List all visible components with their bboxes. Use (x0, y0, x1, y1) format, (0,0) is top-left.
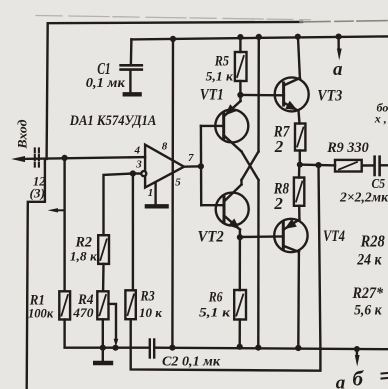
wire R1 bottom to rail (65, 320, 150, 348)
wire VT3 emitter to R7 (299, 111, 300, 124)
resistor R3 (125, 290, 135, 319)
junction output/base node (198, 163, 204, 169)
junction output column (315, 162, 321, 168)
wire output node right (300, 163, 335, 166)
wire op-amp output pin 7 (184, 165, 201, 168)
R4 tap wire (109, 304, 117, 341)
wire R4 bottom (102, 319, 104, 347)
transistor VT1 (201, 125, 224, 127)
terminal b bottom (354, 346, 360, 352)
wire C5 to edge (381, 164, 388, 166)
edge mark right bottom (382, 372, 388, 375)
junction input node (62, 155, 68, 161)
resistor R9 (335, 160, 362, 172)
connector break marks (35, 148, 39, 168)
resistor R8 (294, 178, 304, 206)
resistor R6 (234, 290, 246, 320)
junction C2 node (169, 345, 175, 351)
wire R8 bottom to VT4 (298, 206, 301, 220)
transistor VT4 (274, 219, 307, 252)
wire output bus bottom (155, 348, 388, 350)
resistor R1 (59, 291, 70, 319)
wire R1 column (63, 158, 65, 291)
wire cross column upper (257, 37, 260, 152)
wire VT4 base (240, 235, 284, 238)
wire crossing X (242, 152, 259, 181)
junction rail/terminal a (336, 34, 342, 40)
wire cross column lower to bus (257, 180, 260, 347)
wire left border vertical (47, 23, 48, 159)
wire input (22, 157, 145, 159)
wire VT2 emitter down (239, 230, 241, 238)
junction bus/VT4 (295, 345, 301, 351)
wire correction column pins 8-5 (171, 39, 174, 348)
capacitor C5 (362, 164, 374, 167)
wire R5 top (239, 37, 241, 52)
resistor R2 (98, 235, 109, 264)
junction bus/cross (255, 345, 261, 351)
junction rail/R5 (237, 34, 243, 40)
terminal a top (337, 37, 340, 50)
capacitor C1 (130, 39, 133, 64)
wire R2 to R4 (102, 264, 105, 291)
junction bus/R6 (237, 344, 243, 350)
resistor R7 (295, 124, 305, 151)
wire VT2 collector (240, 180, 242, 185)
junction rail/VT3 (295, 34, 301, 40)
wire R3 bottom to output bus (131, 319, 321, 371)
resistor R5 (235, 52, 247, 81)
junction R4/ground (100, 345, 106, 351)
capacitor C2 (149, 340, 151, 358)
resistor R4 trimmer (97, 291, 108, 319)
wire R3 column (132, 174, 134, 291)
junction VT2/R6/VT4 base (237, 234, 243, 240)
ground at C1 (125, 92, 140, 96)
op-amp DA1 (145, 145, 184, 188)
wire R5 bottom (239, 81, 241, 95)
junction R7/R8 output node (297, 162, 303, 168)
junction rail/cross column (256, 34, 262, 40)
wire top feedback line (48, 22, 302, 23)
junction pin3/R3 node (130, 170, 136, 176)
junction R5/VT1/VT3 base (237, 92, 243, 98)
R1 wiper arrow (54, 209, 64, 211)
wire VT3 base (240, 94, 284, 97)
wire shield down-left (27, 159, 45, 389)
wire pin3 to R2 (104, 174, 143, 236)
junction R4 tap node (112, 345, 118, 351)
input terminal Вход arrow (11, 156, 25, 162)
wire positive rail (131, 36, 388, 39)
wire VT1 emitter to node (239, 95, 242, 101)
wire to R6 (239, 237, 241, 290)
page edge faint line (36, 16, 310, 20)
wire VT3 collector (298, 37, 300, 78)
wire R7 bottom (299, 151, 301, 165)
wire R6 bottom (238, 320, 241, 348)
pin 1 stub and bar (154, 182, 156, 205)
wire R8 top (298, 165, 301, 178)
wire bases column (200, 126, 203, 205)
junction rail/C-column (170, 36, 176, 42)
transistor VT3 (275, 77, 309, 111)
wire output column down (319, 165, 321, 348)
transistor VT2 (201, 204, 224, 206)
ground at R4 (102, 348, 104, 362)
wire VT4 emitter to bus (297, 252, 300, 348)
